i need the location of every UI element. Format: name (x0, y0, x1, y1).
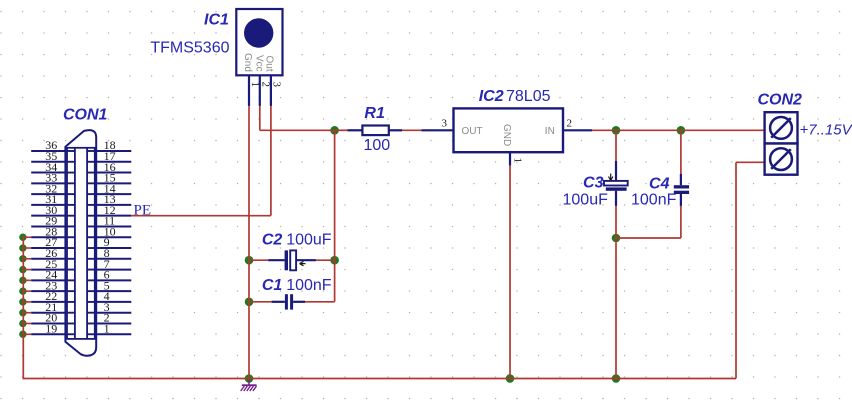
svg-text:C1: C1 (262, 277, 283, 294)
svg-text:Vcc: Vcc (253, 55, 264, 72)
svg-text:100nF: 100nF (286, 277, 332, 294)
svg-text:C2: C2 (262, 232, 283, 249)
svg-text:IC1: IC1 (204, 12, 229, 29)
svg-text:IN: IN (545, 126, 555, 137)
svg-text:OUT: OUT (462, 126, 483, 137)
svg-text:3: 3 (442, 117, 448, 129)
svg-text:100uF: 100uF (563, 191, 609, 208)
svg-text:1: 1 (104, 321, 110, 335)
svg-text:100: 100 (364, 137, 391, 154)
svg-text:2: 2 (260, 82, 272, 88)
svg-text:100nF: 100nF (631, 191, 677, 208)
svg-text:19: 19 (45, 321, 57, 335)
svg-text:CON1: CON1 (63, 107, 108, 124)
svg-text:C4: C4 (649, 175, 670, 192)
svg-text:Gnd: Gnd (242, 53, 253, 72)
svg-text:TFMS5360: TFMS5360 (150, 40, 229, 57)
svg-text:GND: GND (501, 124, 512, 146)
svg-text:+7..15V: +7..15V (800, 121, 852, 138)
svg-text:100uF: 100uF (286, 232, 332, 249)
svg-text:C3: C3 (583, 175, 604, 192)
svg-text:IC2: IC2 (479, 88, 504, 105)
svg-text:R1: R1 (364, 105, 385, 122)
svg-text:CON2: CON2 (758, 91, 803, 108)
svg-text:78L05: 78L05 (506, 88, 551, 105)
svg-text:Out: Out (263, 56, 274, 72)
svg-text:1: 1 (249, 82, 261, 87)
svg-text:1: 1 (511, 158, 523, 164)
svg-text:2: 2 (567, 117, 573, 129)
svg-text:3: 3 (271, 82, 283, 88)
svg-text:PE: PE (134, 203, 152, 219)
